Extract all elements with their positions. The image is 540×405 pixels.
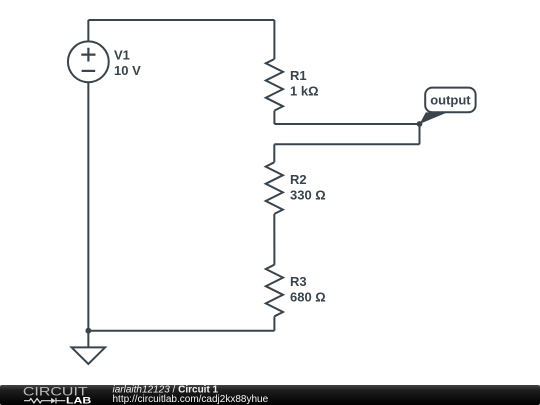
wire: V1 top lead up to top-left corner [87, 20, 89, 42]
V1 plus sign [81, 48, 95, 62]
output flag pointer [420, 112, 448, 124]
wire: R1 bottom lead [273, 111, 275, 124]
svg-text:V1: V1 [114, 47, 130, 62]
svg-text:1 kΩ: 1 kΩ [290, 84, 319, 99]
logo resistor-diode squiggle [24, 399, 51, 403]
wire: horizontal to output node [274, 123, 419, 125]
wire: output node down stub [419, 124, 421, 144]
resistor R3 zigzag [266, 265, 283, 317]
svg-text:680 Ω: 680 Ω [290, 290, 326, 305]
wire: bottom horizontal run [88, 330, 274, 332]
node: output junction dot [417, 121, 423, 127]
wire: right vertical down to R1 [273, 20, 275, 59]
svg-text:LAB: LAB [66, 395, 92, 405]
wire: R2 bottom to R3 top [273, 214, 275, 265]
wire: horizontal back to left rail [274, 143, 419, 145]
svg-text:http://circuitlab.com/cadj2kx8: http://circuitlab.com/cadj2kx88yhue [113, 394, 269, 405]
resistor R1 zigzag [266, 59, 283, 111]
svg-text:R2: R2 [290, 172, 307, 187]
wire: down to R2 [273, 144, 275, 162]
svg-text:R3: R3 [290, 274, 307, 289]
footer bar [0, 385, 540, 405]
wire: ground stem [87, 331, 89, 348]
wire: top horizontal run [88, 19, 274, 21]
svg-text:output: output [430, 93, 471, 108]
output flag box [425, 88, 475, 113]
V1 minus sign [82, 70, 96, 72]
svg-text:10 V: 10 V [114, 63, 141, 78]
wire: R3 bottom lead [273, 316, 275, 330]
node: bottom junction dot [85, 328, 91, 334]
resistor R2 zigzag [266, 162, 283, 214]
svg-text:330 Ω: 330 Ω [290, 187, 326, 202]
svg-text:R1: R1 [290, 68, 307, 83]
wire: left vertical from V1 bottom [87, 82, 89, 331]
voltage source V1 circle [68, 41, 109, 82]
ground symbol [72, 347, 106, 364]
